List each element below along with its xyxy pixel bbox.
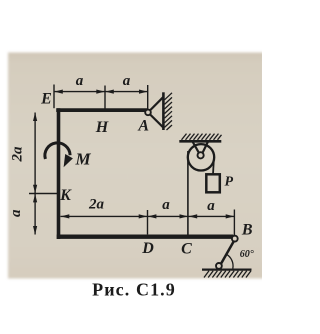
svg-text:M: M [74, 150, 91, 169]
svg-text:D: D [141, 240, 154, 257]
svg-text:60°: 60° [240, 249, 254, 260]
svg-text:a: a [8, 209, 24, 217]
svg-text:a: a [207, 198, 215, 214]
svg-text:a: a [76, 73, 84, 89]
svg-text:a: a [162, 197, 170, 213]
svg-text:P: P [225, 174, 234, 189]
svg-text:A: A [137, 117, 149, 134]
svg-text:2a: 2a [88, 197, 105, 213]
svg-text:H: H [95, 119, 109, 136]
svg-text:C: C [181, 241, 192, 258]
svg-text:B: B [241, 222, 253, 239]
svg-text:K: K [59, 187, 72, 204]
svg-text:E: E [40, 91, 52, 108]
svg-text:Рис. С1.9: Рис. С1.9 [92, 280, 176, 300]
svg-text:2a: 2a [10, 146, 26, 163]
svg-text:a: a [123, 73, 131, 89]
